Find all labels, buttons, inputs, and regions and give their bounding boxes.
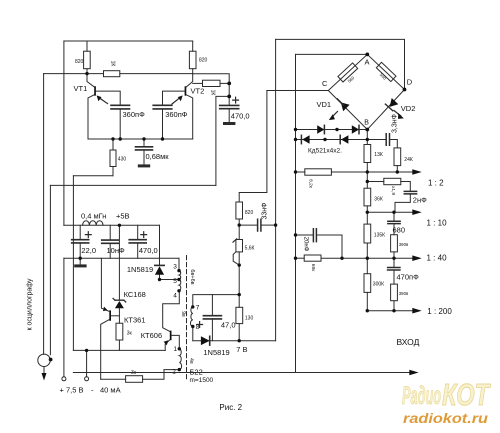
svg-text:0,4 мГн: 0,4 мГн (81, 212, 106, 221)
svg-text:470пФ: 470пФ (397, 273, 420, 282)
svg-text:1К: 1К (110, 61, 116, 67)
svg-text:3,3нФ: 3,3нФ (391, 114, 398, 133)
svg-text:6в+6в: 6в+6в (189, 269, 195, 284)
svg-text:1: 1 (174, 346, 178, 353)
svg-text:C: C (322, 79, 328, 88)
svg-text:360пФ: 360пФ (165, 110, 188, 119)
svg-text:1 : 40: 1 : 40 (427, 254, 448, 263)
svg-text:5,6К: 5,6К (245, 246, 255, 252)
svg-text:820: 820 (245, 210, 254, 216)
svg-text:1 : 2: 1 : 2 (428, 179, 444, 188)
svg-text:10нФ: 10нФ (107, 246, 125, 255)
svg-text:820: 820 (199, 58, 208, 64)
svg-text:Радио: Радио (402, 382, 441, 410)
svg-text:VD2: VD2 (401, 104, 416, 113)
svg-text:КТ361: КТ361 (124, 316, 145, 325)
svg-text:390в: 390в (399, 291, 409, 296)
svg-text:D: D (407, 78, 413, 87)
svg-text:7: 7 (196, 305, 200, 312)
svg-text:+5В: +5В (116, 212, 130, 221)
svg-text:470,0: 470,0 (139, 246, 158, 255)
svg-text:4в: 4в (188, 358, 194, 364)
svg-text:Кд521х4х2.: Кд521х4х2. (308, 148, 342, 155)
svg-text:КТ606: КТ606 (141, 331, 162, 340)
svg-text:135К: 135К (374, 233, 385, 239)
svg-text:1N5819: 1N5819 (203, 348, 229, 357)
svg-text:470,0: 470,0 (231, 112, 250, 121)
svg-text:m=1500: m=1500 (190, 377, 214, 384)
svg-text:24К: 24К (404, 157, 413, 163)
svg-text:360пФ: 360пФ (123, 110, 146, 119)
svg-text:9в: 9в (180, 311, 186, 317)
svg-text:ВХОД: ВХОД (397, 337, 420, 347)
svg-text:40 мА: 40 мА (100, 386, 121, 395)
svg-text:2нФ: 2нФ (413, 196, 427, 205)
svg-text:20нФ: 20нФ (303, 237, 309, 252)
svg-text:1 : 10: 1 : 10 (427, 219, 448, 228)
svg-text:A: A (365, 58, 370, 67)
svg-text:1К: 1К (210, 90, 216, 96)
svg-text:4: 4 (173, 293, 177, 300)
svg-text:1N5819: 1N5819 (127, 265, 153, 274)
svg-text:8,2к: 8,2к (308, 179, 314, 189)
svg-text:1 : 200: 1 : 200 (427, 307, 452, 316)
svg-text:390в: 390в (399, 242, 409, 247)
svg-text:B: B (364, 120, 369, 127)
svg-text:VT2: VT2 (191, 87, 205, 96)
svg-text:13К: 13К (374, 152, 383, 158)
svg-text:3: 3 (173, 264, 177, 271)
svg-text:430: 430 (118, 157, 127, 163)
svg-text:3к: 3к (127, 331, 133, 337)
svg-text:0,68мк: 0,68мк (146, 152, 170, 161)
svg-text:х1,9: х1,9 (390, 186, 396, 195)
svg-text:33нФ: 33нФ (261, 203, 268, 220)
svg-text:Рис. 2: Рис. 2 (219, 403, 242, 412)
svg-text:+ 7,5 В: + 7,5 В (60, 386, 84, 395)
svg-text:47,0: 47,0 (221, 321, 236, 330)
svg-text:680: 680 (393, 225, 406, 234)
svg-text:36К: 36К (374, 197, 383, 203)
svg-text:VT1: VT1 (74, 84, 88, 93)
svg-text:68к: 68к (310, 264, 316, 272)
svg-text:radiokot.ru: radiokot.ru (403, 410, 489, 426)
svg-text:5: 5 (173, 278, 177, 285)
svg-text:130: 130 (245, 316, 254, 322)
svg-text:820: 820 (75, 59, 84, 65)
svg-text:7 В: 7 В (236, 345, 247, 354)
svg-text:22,0: 22,0 (81, 246, 96, 255)
svg-text:VD1: VD1 (317, 100, 332, 109)
svg-text:300К: 300К (373, 282, 384, 288)
svg-text:КОТ: КОТ (442, 377, 491, 412)
svg-text:8: 8 (196, 324, 200, 331)
svg-text:к осциллографу: к осциллографу (27, 278, 34, 330)
svg-text:КС168: КС168 (124, 290, 146, 299)
